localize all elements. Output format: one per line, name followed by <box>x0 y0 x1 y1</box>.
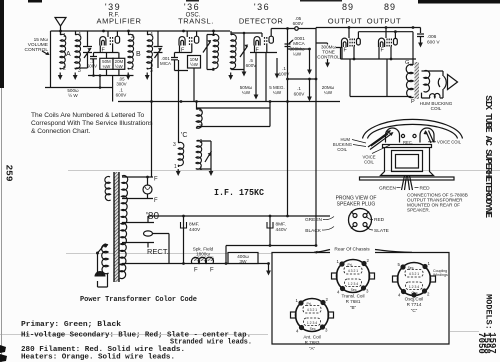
switch <box>98 244 106 273</box>
tube V3 filament <box>256 40 259 45</box>
tone control <box>316 43 328 63</box>
ground arrow below coil A secondary <box>74 73 76 77</box>
IF1 primary <box>213 31 219 70</box>
hum bucking coil bumps <box>430 94 440 98</box>
svg-text:300V: 300V <box>116 82 126 87</box>
rect plate top <box>122 216 154 223</box>
coupling windings label <box>433 269 448 277</box>
svg-text:1: 1 <box>174 164 177 170</box>
fold line mid-left <box>66 253 272 255</box>
base bar <box>360 177 455 180</box>
bottom left corner mark b <box>0 354 7 362</box>
svg-text:RECT.: RECT. <box>147 247 169 256</box>
tube V5 89 envelope <box>379 38 385 47</box>
tube V5 grid dashes <box>387 39 391 47</box>
leads diag right <box>426 131 434 144</box>
tube V1 filament <box>102 40 105 45</box>
svg-text:GREEN: GREEN <box>379 186 397 192</box>
socket A caption <box>303 335 320 352</box>
svg-text:4: 4 <box>78 32 81 38</box>
socket C pin numbers <box>398 261 431 303</box>
svg-text:SIX TUBE AC SUPERHETERODYNE: SIX TUBE AC SUPERHETERODYNE <box>483 95 494 218</box>
cap drop b .1 600V <box>309 79 311 97</box>
svg-text:¼W: ¼W <box>293 52 302 57</box>
pole piece right <box>420 128 434 143</box>
top edge mark 2 <box>186 0 199 2</box>
osc tank winding <box>196 140 202 169</box>
svg-text:COIL: COIL <box>337 147 347 152</box>
svg-text:'36: '36 <box>254 2 270 12</box>
svg-text:2: 2 <box>63 66 66 72</box>
svg-text:P: P <box>411 99 415 105</box>
socket B pins <box>339 261 344 266</box>
svg-text:8MF.: 8MF. <box>189 222 199 228</box>
osc pickup coil (pins 4-3) <box>196 102 202 129</box>
leads diag left <box>368 131 393 150</box>
svg-text:Power Transformer Color Code: Power Transformer Color Code <box>80 296 197 304</box>
coil A primary <box>60 31 66 70</box>
svg-text:GREEN: GREEN <box>305 217 323 223</box>
svg-text:COIL: COIL <box>431 106 442 111</box>
svg-text:'39: '39 <box>105 2 121 12</box>
ground bus psu <box>122 263 269 265</box>
pole piece left <box>386 128 400 143</box>
svg-text:Ant. Coil: Ant. Coil <box>303 335 320 340</box>
svg-text:1: 1 <box>131 66 134 72</box>
svg-text:VOICE COIL: VOICE COIL <box>437 140 462 145</box>
hum bucking label left <box>333 137 352 152</box>
tube V4 plate <box>357 38 361 45</box>
svg-text:Rear Of Chassis: Rear Of Chassis <box>334 247 370 253</box>
connections note <box>407 193 468 213</box>
tube V3 '36 envelope <box>254 37 260 46</box>
socket B windings <box>344 267 362 287</box>
osc tank tuning cap <box>197 141 212 169</box>
svg-text:1 2 3 4: 1 2 3 4 <box>307 321 317 325</box>
pilot lamp <box>147 177 149 185</box>
tube V2 plate lead <box>196 31 198 36</box>
svg-text:¼W: ¼W <box>102 64 111 69</box>
svg-text:7050: 7050 <box>476 332 486 354</box>
socket A pin numbers <box>296 297 329 334</box>
svg-text:¼W: ¼W <box>324 90 333 95</box>
B+ line <box>148 215 330 217</box>
resistor 400ohm box <box>228 253 258 264</box>
voice coil label left <box>362 155 375 165</box>
screw left <box>401 134 404 137</box>
svg-text:440V: 440V <box>189 227 201 233</box>
junction dots rails <box>59 30 62 33</box>
chassis bus RF <box>45 87 113 89</box>
svg-text:R 7683: R 7683 <box>305 340 320 345</box>
socket C caption <box>405 297 424 314</box>
socket B circle <box>337 260 370 293</box>
bottom left corner mark a <box>0 345 6 353</box>
transformer box mid <box>392 151 423 172</box>
output transformer primary <box>406 64 413 97</box>
socket B pin numbers <box>337 258 370 295</box>
socket C tabs <box>393 276 399 282</box>
tube V1 plate lead <box>116 31 118 36</box>
svg-text:600V: 600V <box>116 93 128 98</box>
tube V1 grid cap lead <box>107 31 109 37</box>
rect filament <box>144 231 153 236</box>
screw right <box>413 134 416 137</box>
osc coil grid winding <box>178 60 184 167</box>
svg-text:1 2 3 4: 1 2 3 4 <box>409 285 419 289</box>
svg-text:1800ω: 1800ω <box>196 252 210 257</box>
svg-text:½W: ½W <box>190 62 199 67</box>
prong c <box>353 223 357 227</box>
avc taps <box>288 78 317 80</box>
grid wire <box>231 33 262 37</box>
coil B primary <box>128 31 134 70</box>
tube V2 '36 envelope <box>179 37 185 46</box>
output transformer core <box>415 62 420 99</box>
filter cap 2 <box>269 216 271 246</box>
svg-text:600V: 600V <box>293 21 305 26</box>
svg-text:2: 2 <box>200 139 203 145</box>
tube V5 grid lead <box>385 28 387 39</box>
cathode line <box>250 45 277 53</box>
svg-text:Osc.: Osc. <box>412 291 419 295</box>
secondary <box>424 71 430 92</box>
IF1 secondary <box>230 31 236 70</box>
primary winding <box>102 244 109 273</box>
svg-text:89: 89 <box>384 2 396 12</box>
socket A windings <box>303 306 321 326</box>
label .1 600V lower <box>116 88 128 98</box>
chassis outline box <box>272 253 449 345</box>
300M resistor label <box>289 47 304 57</box>
svg-text:Osc. Coil: Osc. Coil <box>405 297 424 302</box>
svg-text:F: F <box>154 177 158 183</box>
svg-text:Primary: Green; Black: Primary: Green; Black <box>21 321 122 329</box>
svg-text:'C: 'C <box>181 132 187 139</box>
svg-text:1 2 3 4: 1 2 3 4 <box>348 282 358 286</box>
top edge mark 3 <box>300 0 342 2</box>
svg-text:600V: 600V <box>87 64 97 69</box>
5 MEG drop <box>265 53 267 102</box>
rect plate bottom <box>122 243 154 248</box>
label .5 600V <box>246 58 258 68</box>
svg-text:100V: 100V <box>279 72 291 77</box>
svg-text:I.F. 175KC: I.F. 175KC <box>214 187 264 198</box>
tube V2 grid dashes <box>190 37 192 45</box>
svg-text:600 V: 600 V <box>427 40 440 46</box>
fold line upper <box>68 170 500 172</box>
svg-text:F: F <box>194 268 198 274</box>
svg-text:MODELS:: MODELS: <box>484 294 494 330</box>
speaker basket inner arc <box>368 124 458 138</box>
svg-text:½W: ½W <box>115 64 124 69</box>
fold line right <box>450 331 479 333</box>
svg-text:AMPLIFIER: AMPLIFIER <box>97 17 142 26</box>
cap .001 MICA <box>171 53 188 71</box>
tube V4 grid dashes <box>350 39 354 47</box>
svg-text:Correspond With The Service Il: Correspond With The Service Illustration… <box>31 120 153 127</box>
het rail down <box>315 28 317 246</box>
coil A secondary <box>75 31 81 70</box>
filter cap 1 <box>183 216 185 264</box>
top right black bar <box>418 0 500 4</box>
cathode rail <box>336 48 416 60</box>
cap .1 600V <box>90 53 97 76</box>
F line 1 <box>122 176 153 178</box>
tube V5 plate <box>394 38 398 45</box>
tube V4 filament <box>343 42 346 47</box>
tube V2 plate <box>194 36 198 43</box>
svg-text:3: 3 <box>78 68 81 74</box>
junction dots output rail <box>348 26 351 29</box>
left margin black bar <box>0 0 4 88</box>
F line 2 <box>122 198 153 200</box>
secondary winding <box>120 176 128 279</box>
resistor box 20M <box>113 58 125 69</box>
secondary wiring <box>422 71 444 98</box>
svg-text:4 3 2 1: 4 3 2 1 <box>307 308 317 312</box>
tube V4 89 envelope <box>342 38 348 47</box>
AC plug <box>95 271 106 277</box>
svg-text:OUTPUT: OUTPUT <box>367 17 401 26</box>
tube V3 plate <box>269 36 273 43</box>
wire row y75.5 <box>88 75 134 77</box>
svg-text:259: 259 <box>4 164 15 181</box>
svg-text:.1: .1 <box>282 66 286 71</box>
svg-text:440V: 440V <box>276 227 288 233</box>
tube V2 grid lead <box>186 31 188 37</box>
20M label <box>322 85 335 95</box>
svg-text:4: 4 <box>150 32 153 38</box>
prong view label <box>336 196 377 208</box>
svg-text:MICA: MICA <box>160 61 171 66</box>
cap drop a <box>309 49 311 70</box>
tube V4 grid lead <box>348 28 350 39</box>
svg-text:"B": "B" <box>350 305 357 310</box>
transformer core <box>114 172 119 282</box>
tube V5 plate lead <box>394 32 396 39</box>
svg-text:The Coils Are Numbered & Lette: The Coils Are Numbered & Lettered To <box>31 112 144 119</box>
speaker basket outer arc <box>363 119 463 138</box>
antenna <box>55 18 66 36</box>
.1 100V cap <box>276 58 278 74</box>
tube V3 grid dashes <box>265 37 267 45</box>
transformer top bar <box>383 145 432 148</box>
svg-text:SLATE: SLATE <box>374 228 389 234</box>
svg-text:8MF.: 8MF. <box>276 222 286 228</box>
leader left with arrow <box>314 250 330 253</box>
svg-text:.1: .1 <box>297 86 301 91</box>
wire rail top RF <box>51 30 231 32</box>
svg-text:CONTROL: CONTROL <box>317 55 340 60</box>
.006 cap <box>417 28 424 44</box>
svg-text:COIL: COIL <box>364 160 374 165</box>
cathode line <box>94 45 119 53</box>
transformer frame outer <box>381 148 434 176</box>
.0001 mica cap <box>285 44 291 47</box>
svg-text:3W: 3W <box>239 259 247 265</box>
fold line bottom <box>0 334 268 336</box>
svg-text:RED: RED <box>420 186 431 192</box>
prong d <box>363 223 367 227</box>
svg-text:F: F <box>154 198 158 204</box>
transformer feed <box>410 64 413 66</box>
svg-text:Transl. Coil: Transl. Coil <box>341 294 364 299</box>
leader right <box>375 250 412 253</box>
socket B tabs <box>332 273 338 279</box>
IF transformer 1 tuning cap <box>203 35 214 70</box>
socket C windings <box>405 270 423 290</box>
svg-text:Windings: Windings <box>433 273 448 277</box>
IF2 tuning cap <box>231 33 247 70</box>
svg-text:MICA: MICA <box>293 41 305 46</box>
cathode returns <box>350 59 412 97</box>
hum bucking label <box>420 101 453 111</box>
svg-text:SPEAKER.: SPEAKER. <box>407 208 430 213</box>
tube V2 filament <box>181 40 184 45</box>
label 500ohm <box>67 88 79 98</box>
svg-text:Sec.: Sec. <box>351 288 358 292</box>
svg-text:Sec.: Sec. <box>310 327 317 331</box>
socket A circle <box>296 299 329 332</box>
svg-text:4 3 2 1: 4 3 2 1 <box>348 269 358 273</box>
svg-text:F: F <box>210 268 214 274</box>
transformer box inner <box>396 155 419 169</box>
volume control arrow <box>42 51 48 55</box>
wire vol drop <box>50 31 52 88</box>
socket B caption <box>341 294 364 311</box>
tube V1 plate <box>115 36 119 43</box>
socket C pins <box>400 264 405 269</box>
heater bus <box>118 101 340 103</box>
left margin gray edge <box>1 88 3 362</box>
svg-text:BLACK: BLACK <box>305 228 322 234</box>
tuning cap RF <box>83 31 92 68</box>
socket C circle <box>398 263 431 296</box>
svg-text:"C": "C" <box>411 308 418 313</box>
svg-text:1: 1 <box>63 33 66 39</box>
coil B secondary <box>147 31 153 70</box>
tube V4 plate lead <box>357 32 359 39</box>
speaker field choke <box>194 257 214 262</box>
svg-text:RED: RED <box>374 217 385 223</box>
svg-text:Pri.: Pri. <box>306 302 311 306</box>
coupling cap .05 <box>295 27 299 31</box>
svg-text:¼W: ¼W <box>242 90 251 95</box>
svg-text:R 7681: R 7681 <box>346 299 361 304</box>
filament winding top left <box>105 177 111 201</box>
field feed line <box>226 245 316 247</box>
prong b <box>363 214 367 218</box>
svg-text:'36: '36 <box>184 2 200 12</box>
svg-text:89: 89 <box>342 2 354 12</box>
svg-text:3: 3 <box>150 68 153 74</box>
plug circle <box>349 209 372 232</box>
volume control label <box>25 37 49 53</box>
plate bus <box>358 32 413 65</box>
svg-text:Sec.: Sec. <box>408 266 415 270</box>
speaker symbol <box>438 76 446 89</box>
wires down green red <box>402 176 413 191</box>
svg-text:4: 4 <box>199 108 202 114</box>
socket A pins <box>298 300 303 305</box>
svg-text:Heaters: Orange. Solid wire: Heaters: Orange. Solid wire leads. <box>21 354 175 362</box>
svg-text:TRANSL.: TRANSL. <box>178 17 214 26</box>
osc pickup hook wire <box>197 102 270 129</box>
tuning cap osc input <box>154 31 163 68</box>
svg-text:4 3 2 1: 4 3 2 1 <box>409 272 419 276</box>
svg-text:OUTPUT: OUTPUT <box>328 17 362 26</box>
ground arrow below coil A primary <box>59 73 61 77</box>
svg-text:.006: .006 <box>427 34 437 40</box>
resistor box 10M <box>188 56 201 69</box>
svg-text:A: A <box>66 51 71 58</box>
svg-text:& Connection Chart.: & Connection Chart. <box>31 128 91 135</box>
svg-text:DETECTOR: DETECTOR <box>239 17 283 26</box>
svg-text:Pri.: Pri. <box>347 263 352 267</box>
socket A tabs <box>291 312 297 318</box>
tube V2 leads down <box>175 45 192 53</box>
AVC rail <box>287 29 289 217</box>
plate lead <box>270 29 272 37</box>
top edge mark 1 <box>28 0 42 3</box>
svg-text:2: 2 <box>131 34 134 40</box>
tube V1 '39 envelope <box>100 37 106 46</box>
prong a <box>353 214 357 218</box>
svg-text:½ W: ½ W <box>68 92 78 98</box>
heater feed down <box>151 60 153 177</box>
svg-text:R 7714: R 7714 <box>407 302 422 307</box>
svg-text:"A": "A" <box>309 346 316 351</box>
svg-text:600V: 600V <box>294 92 306 97</box>
output rail <box>316 27 421 29</box>
svg-text:SPEAKER PLUG: SPEAKER PLUG <box>337 202 376 208</box>
resistor box 50M <box>100 58 113 69</box>
plate rail <box>271 28 316 30</box>
primary bottom lead <box>103 274 108 288</box>
svg-text:B: B <box>136 51 141 58</box>
50M drop <box>255 53 257 96</box>
label .05 300V <box>116 77 126 87</box>
tube V1 grid dashes <box>110 37 112 45</box>
tube V5 filament <box>380 42 383 47</box>
svg-text:3: 3 <box>173 142 176 148</box>
svg-text:¼W: ¼W <box>273 90 282 95</box>
